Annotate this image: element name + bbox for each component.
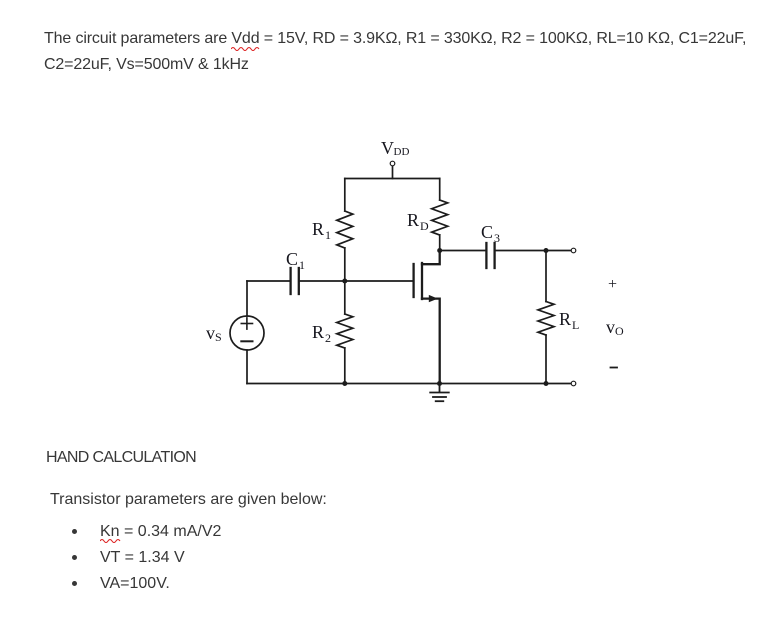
svg-text:R: R [559, 309, 571, 329]
svg-text:V: V [381, 138, 394, 158]
label RD [407, 210, 429, 233]
paragraph text [44, 26, 746, 78]
node output top junction [544, 248, 549, 253]
wire R1 bottom to gate node [344, 248, 346, 281]
label RL [559, 309, 579, 332]
source vs circle [230, 316, 264, 350]
capacitor C1 [291, 268, 299, 294]
resistor RD [432, 200, 448, 235]
label C3 [481, 222, 500, 245]
svg-text:R: R [312, 219, 324, 239]
label VDD [381, 138, 409, 158]
ground [430, 384, 449, 402]
terminal output bottom [571, 381, 576, 386]
bullet 1 [72, 529, 77, 534]
wire bottom rail [247, 383, 571, 385]
wire C3 right [496, 250, 546, 252]
transistor Q1 channel bar [421, 263, 423, 299]
wire R2 bottom [344, 348, 346, 384]
svg-text:+: + [608, 276, 617, 293]
wire RD bottom to drain node [439, 235, 441, 251]
transistor Q1 source arrow [429, 295, 438, 302]
subheading [50, 491, 327, 509]
svg-text:C: C [481, 222, 493, 242]
svg-text:L: L [572, 318, 579, 332]
red squiggle under Vdd [231, 45, 261, 51]
label R1 [312, 219, 331, 242]
wire vs bottom [246, 350, 248, 384]
wire R2 top [344, 281, 346, 314]
svg-text:2: 2 [325, 331, 331, 345]
VDD terminal [390, 161, 395, 166]
svg-text:S: S [215, 330, 222, 344]
source vs plus [241, 318, 252, 329]
bullet 2 [72, 555, 77, 560]
transistor Q1 source stub [422, 299, 440, 384]
bullet 3 [72, 581, 77, 586]
label R2 [312, 322, 331, 345]
label C1 [286, 249, 305, 272]
transistor Q1 drain stub [422, 251, 440, 265]
svg-text:C: C [286, 249, 298, 269]
svg-text:O: O [615, 324, 624, 338]
wire RD top [439, 179, 441, 201]
node gate junction [342, 279, 347, 284]
svg-text:v: v [206, 323, 215, 343]
wire C1 left [247, 280, 289, 282]
label minus output [611, 367, 618, 369]
node R2 bottom junction [342, 381, 347, 386]
wire VDD stub [392, 167, 394, 179]
wire gate [345, 280, 413, 282]
svg-text:R: R [407, 210, 419, 230]
source vs minus [241, 340, 252, 342]
heading [46, 449, 196, 467]
node source ground junction [437, 381, 442, 386]
node RL bottom junction [544, 381, 549, 386]
resistor R1 [337, 211, 353, 248]
svg-text:DD: DD [394, 146, 410, 158]
svg-text:1: 1 [325, 228, 331, 242]
svg-text:D: D [420, 219, 429, 233]
resistor RL [538, 302, 554, 336]
resistor R2 [337, 314, 353, 348]
capacitor C3 [486, 243, 494, 268]
wire vs top [246, 281, 248, 316]
transistor Q1 gate bar [412, 264, 414, 297]
wire C1 right [300, 280, 345, 282]
wire RL bottom [545, 335, 547, 384]
node drain junction [437, 248, 442, 253]
red squiggle under Kn [100, 537, 122, 543]
wire to top output terminal [546, 250, 571, 252]
svg-text:R: R [312, 322, 324, 342]
wire drain to C3 [440, 250, 486, 252]
label vs [206, 323, 222, 344]
wire RL top [545, 251, 547, 302]
wire R1 top [344, 179, 346, 212]
wire top rail [345, 178, 440, 180]
svg-text:v: v [606, 317, 615, 337]
label vo [606, 317, 624, 338]
terminal output top [571, 248, 576, 253]
